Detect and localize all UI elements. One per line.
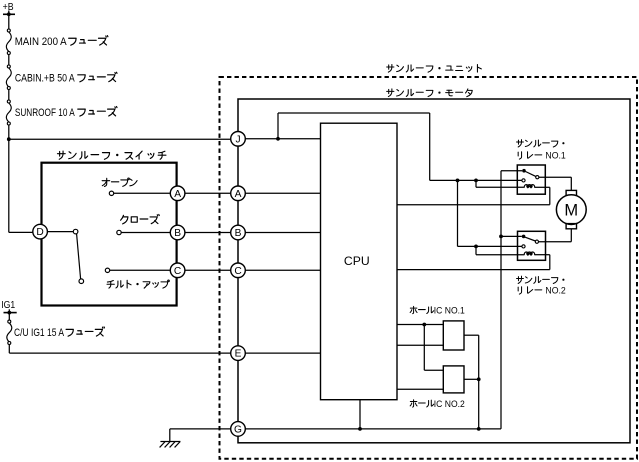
svg-text:IG1: IG1 (1, 299, 15, 311)
svg-text:CABIN.+B 50 A: CABIN.+B 50 A (15, 73, 75, 85)
svg-text:NO.2: NO.2 (545, 286, 565, 296)
svg-text:J: J (235, 134, 240, 145)
svg-text:B: B (235, 228, 242, 239)
svg-text:E: E (235, 349, 242, 360)
svg-text:G: G (234, 425, 242, 436)
svg-text:D: D (36, 227, 43, 238)
svg-text:C: C (234, 266, 241, 277)
svg-text:NO.1: NO.1 (545, 151, 565, 161)
svg-text:A: A (235, 189, 242, 200)
svg-text:A: A (174, 189, 181, 200)
svg-text:IC NO.1: IC NO.1 (434, 305, 465, 316)
svg-text:CPU: CPU (344, 254, 370, 268)
svg-text:IC NO.2: IC NO.2 (434, 399, 465, 410)
svg-text:C/U IG1 15 A: C/U IG1 15 A (14, 327, 65, 339)
svg-text:C: C (174, 266, 181, 277)
svg-text:MAIN 200 A: MAIN 200 A (15, 36, 68, 48)
svg-text:+B: +B (3, 1, 14, 13)
svg-text:B: B (174, 228, 181, 239)
svg-text:SUNROOF 10 A: SUNROOF 10 A (15, 107, 75, 119)
svg-text:M: M (564, 201, 578, 219)
